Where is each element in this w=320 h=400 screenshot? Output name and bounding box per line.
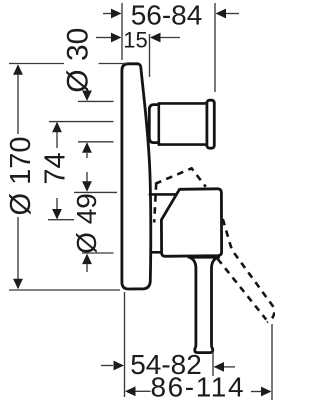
- svg-text:86-114: 86-114: [150, 372, 245, 400]
- svg-text:Ø 30: Ø 30: [61, 28, 94, 93]
- svg-text:Ø 49: Ø 49: [71, 193, 102, 254]
- svg-text:74: 74: [39, 152, 71, 184]
- svg-text:15: 15: [123, 28, 147, 53]
- svg-text:56-84: 56-84: [131, 0, 203, 31]
- svg-text:Ø 170: Ø 170: [5, 137, 37, 216]
